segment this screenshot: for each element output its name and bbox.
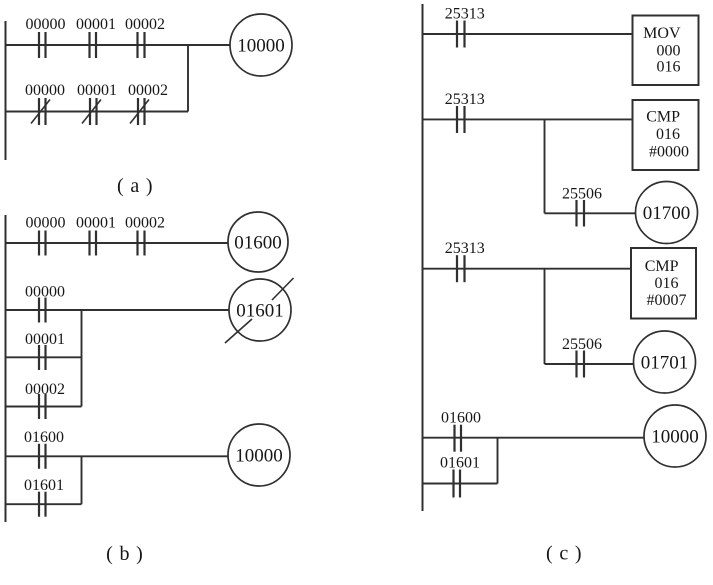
- coil 10000 (section b): [228, 424, 290, 486]
- svg-text:016: 016: [657, 59, 681, 76]
- svg-text:( a ): ( a ): [117, 175, 153, 197]
- box CMP #0007 instruction: [631, 248, 696, 319]
- svg-text:#0007: #0007: [647, 292, 687, 309]
- contact 00001 (NO, rung B2b): [39, 345, 46, 370]
- svg-text:00000: 00000: [26, 16, 66, 33]
- branch wire C2 vertical: [544, 119, 546, 213]
- svg-text:00000: 00000: [26, 215, 66, 232]
- contact 00001 (NO, rung A1): [90, 32, 97, 58]
- coil 01700: [636, 182, 698, 244]
- left power rail (b): [5, 215, 7, 522]
- svg-text:016: 016: [656, 126, 680, 143]
- contact 01600 (NO, rung B3): [39, 444, 46, 469]
- contact 25506 (NO, rung C3b): [577, 351, 585, 378]
- svg-text:00001: 00001: [25, 331, 65, 348]
- svg-text:01601: 01601: [24, 477, 64, 494]
- wire rung C2: [423, 118, 633, 120]
- coil 10000 (section a): [230, 14, 292, 76]
- left power rail (a): [5, 21, 7, 160]
- coil 01601 (NC coil): [229, 279, 291, 341]
- contact 01601 (NO, rung B3b): [39, 492, 46, 517]
- svg-text:10000: 10000: [651, 427, 699, 448]
- contact 25506 (NO, rung C2b): [577, 200, 585, 227]
- box CMP #0000 instruction: [633, 100, 699, 170]
- svg-text:000: 000: [657, 43, 681, 60]
- svg-text:00002: 00002: [125, 16, 165, 33]
- branch wire C4 vertical: [497, 438, 499, 484]
- svg-text:01600: 01600: [24, 429, 64, 446]
- svg-text:01601: 01601: [440, 455, 480, 472]
- contact 00000 (NO, rung B1): [39, 231, 46, 256]
- contact 01600 (NO, rung C4): [455, 425, 462, 452]
- box MOV instruction: [633, 16, 699, 86]
- svg-text:25313: 25313: [445, 91, 485, 108]
- svg-text:25506: 25506: [562, 186, 602, 203]
- contact 00000 (NO, rung A1): [39, 32, 46, 58]
- coil 01701: [634, 331, 696, 393]
- wire rung A2: [6, 111, 189, 113]
- contact 01601 (NO, rung C4b): [454, 470, 461, 498]
- svg-text:CMP: CMP: [645, 258, 679, 275]
- contact 25313 (NO, rung C3): [457, 255, 465, 282]
- contact 00002 (NC, rung A2): [138, 98, 145, 125]
- wire rung B3: [6, 455, 229, 457]
- contact 00000 (NO, rung B2): [39, 298, 46, 323]
- wire rung C4b: [423, 483, 498, 485]
- coil 10000 (section c): [644, 405, 706, 467]
- wire rung B2b: [6, 356, 82, 358]
- svg-text:25506: 25506: [562, 336, 602, 353]
- svg-text:( b ): ( b ): [106, 543, 143, 565]
- svg-text:CMP: CMP: [646, 109, 680, 126]
- wire rung B2: [6, 309, 230, 311]
- svg-text:00001: 00001: [76, 16, 116, 33]
- svg-text:01601: 01601: [236, 301, 284, 322]
- svg-text:10000: 10000: [237, 36, 285, 57]
- svg-text:00002: 00002: [25, 381, 65, 398]
- wire rung B3b: [6, 503, 82, 505]
- svg-text:01700: 01700: [643, 203, 691, 224]
- branch wire C3 vertical: [544, 269, 546, 364]
- contact 00000 (NC, rung A2): [39, 98, 46, 125]
- junction wire A1-A2: [187, 45, 189, 112]
- svg-text:00000: 00000: [25, 284, 65, 301]
- contact 00002 (NO, rung B1): [138, 231, 145, 256]
- left power rail (c): [422, 4, 424, 511]
- contact 00001 (NO, rung B1): [90, 231, 97, 256]
- wire rung C2b: [545, 212, 636, 214]
- svg-text:00002: 00002: [128, 82, 168, 99]
- wire rung B2c: [6, 406, 82, 408]
- contact 25313 (NO, rung C1): [457, 21, 465, 48]
- wire rung C4: [423, 437, 645, 439]
- contact 00002 (NO, rung B2c): [39, 394, 46, 419]
- svg-text:#0000: #0000: [649, 144, 689, 161]
- wire rung B1: [6, 242, 229, 244]
- svg-text:00001: 00001: [76, 215, 116, 232]
- svg-text:00000: 00000: [25, 82, 65, 99]
- contact 00001 (NC, rung A2): [90, 98, 97, 125]
- coil 01600: [228, 212, 288, 272]
- contact 25313 (NO, rung C2): [457, 106, 465, 133]
- svg-text:01701: 01701: [641, 353, 689, 374]
- wire rung C3b: [545, 363, 634, 365]
- svg-text:10000: 10000: [235, 446, 283, 467]
- wire rung C1: [423, 33, 633, 35]
- branch wire B2 vertical: [81, 310, 83, 407]
- svg-text:( c ): ( c ): [546, 543, 582, 565]
- svg-text:MOV: MOV: [643, 25, 681, 42]
- wire rung A1: [6, 44, 231, 46]
- wire rung C3: [423, 268, 632, 270]
- svg-text:25313: 25313: [445, 240, 485, 257]
- svg-text:01600: 01600: [441, 410, 481, 427]
- svg-text:016: 016: [655, 275, 679, 292]
- contact 00002 (NO, rung A1): [138, 32, 145, 58]
- svg-text:25313: 25313: [445, 6, 485, 23]
- svg-text:00001: 00001: [77, 82, 117, 99]
- svg-text:01600: 01600: [234, 233, 282, 254]
- svg-text:00002: 00002: [125, 215, 165, 232]
- branch wire B3 vertical: [81, 456, 83, 504]
